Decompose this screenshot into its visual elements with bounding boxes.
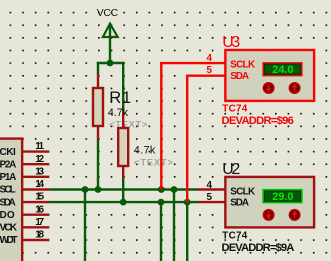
svg-text:SDA: SDA: [230, 198, 249, 209]
svg-text:DO: DO: [0, 210, 15, 221]
svg-text:SCLK: SCLK: [230, 186, 256, 197]
svg-text:VCC: VCC: [97, 8, 119, 19]
svg-text:R: R: [109, 89, 121, 107]
svg-text:4: 4: [207, 53, 213, 64]
svg-text:SCL: SCL: [0, 185, 16, 196]
svg-text:29.0: 29.0: [272, 191, 293, 203]
svg-text:CKI: CKI: [0, 147, 16, 158]
svg-text:12: 12: [35, 154, 44, 165]
svg-text:DEVADDR=$96: DEVADDR=$96: [222, 115, 294, 127]
svg-text:5: 5: [207, 65, 213, 76]
svg-text:SCLK: SCLK: [230, 60, 256, 71]
svg-text:SDA: SDA: [230, 71, 249, 82]
svg-text:VCK: VCK: [0, 223, 18, 234]
svg-text:3: 3: [231, 34, 240, 51]
svg-text:5: 5: [207, 192, 213, 203]
svg-text:1: 1: [122, 89, 131, 107]
svg-text:24.0: 24.0: [272, 64, 293, 76]
svg-text:17: 17: [35, 217, 44, 228]
svg-text:P1A: P1A: [0, 172, 16, 183]
svg-text:13: 13: [35, 166, 44, 177]
svg-text:16: 16: [35, 204, 44, 215]
svg-text:SDA: SDA: [0, 197, 16, 208]
svg-text:WDT: WDT: [0, 235, 18, 246]
svg-text:TC74: TC74: [222, 231, 247, 242]
svg-text:14: 14: [35, 179, 44, 190]
svg-text:11: 11: [35, 141, 44, 152]
svg-text:DEVADDR=$9A: DEVADDR=$9A: [222, 242, 295, 254]
svg-text:15: 15: [35, 192, 44, 203]
svg-text:4: 4: [207, 180, 213, 191]
svg-text:18: 18: [35, 230, 44, 241]
svg-text:4.7k: 4.7k: [108, 107, 129, 119]
svg-text:<TEXT>: <TEXT>: [134, 158, 173, 168]
svg-text:P2A: P2A: [0, 159, 16, 170]
svg-text:2: 2: [231, 161, 240, 178]
svg-text:TC74: TC74: [222, 104, 247, 115]
svg-text:4.7k: 4.7k: [134, 144, 156, 156]
